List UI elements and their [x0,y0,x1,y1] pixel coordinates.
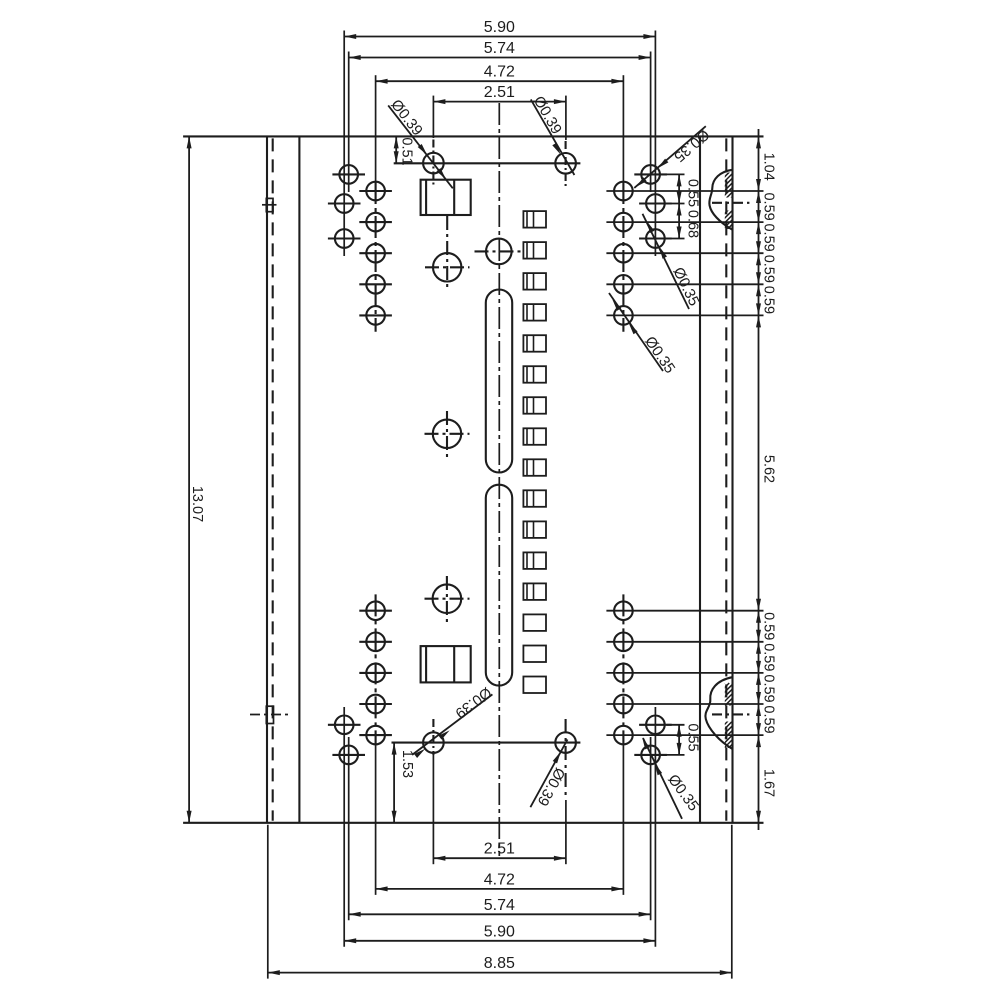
dimension 5.90 top [344,19,655,256]
right inner wall line [699,136,701,822]
dimension 5.74 top [349,40,651,192]
outer row extension lines to 0.55 dim (bottom) [662,725,685,755]
svg-text:5.90: 5.90 [484,923,515,940]
large hole B3 [425,411,470,457]
leader diameter 0.35 top-right hole [634,126,712,188]
lower left edge notch [250,706,288,723]
svg-text:Ø0.39: Ø0.39 [452,683,495,721]
contact pad column [523,211,546,693]
leader diameter 0.39 hole A1 [387,96,453,188]
large hole B4 [425,576,470,622]
dimension 0.55/0.68 top-right [677,174,701,238]
lower slot [486,485,512,686]
svg-text:Ø0.39: Ø0.39 [530,93,565,137]
lower broken-out section break line [705,677,732,749]
svg-text:0.59: 0.59 [761,192,777,220]
bottom-right inner holes column [614,594,633,745]
dimension 5.90 bottom [344,707,655,947]
svg-text:0.59: 0.59 [761,612,777,640]
svg-text:13.07: 13.07 [189,486,205,522]
chain label 1.04 [761,153,777,181]
part body outline - top edge with extension lines [183,135,763,137]
dimension 0.55 bottom-right [677,723,701,755]
hole A3 diameter 0.39 bottom-left [423,719,444,755]
top-right outer hole 3 (5.90 col) [639,229,672,248]
leader diameter 0.39 hole A2 [530,93,575,175]
row line through bottom 0.39 holes [392,742,581,744]
part body outline - bottom edge with extension lines [183,822,763,824]
vertical part centreline [498,103,500,856]
leader diameter 0.35 mid-right hole [643,214,703,309]
svg-text:1.04: 1.04 [761,153,777,181]
svg-text:4.72: 4.72 [484,64,515,81]
lower section hole axis [712,713,749,715]
dimension 5.74 bottom [349,737,651,920]
svg-text:0.68: 0.68 [685,210,701,238]
top-right outer hole 2 (5.90 col) [639,194,672,213]
top-left outer hole 2 (5.90 col) [328,194,361,213]
left inner wall line [298,136,300,822]
svg-text:0.55: 0.55 [685,723,701,751]
chain label 1.67 [761,769,777,797]
svg-text:4.72: 4.72 [484,871,515,888]
chain labels 0.59 bottom [761,612,777,734]
leader diameter 0.39 hole A4 [530,740,568,809]
bottom-left outer hole 2 (5.74 col) [332,746,365,765]
lower rectangular cutout [421,646,471,682]
bottom-left outer hole 1 (5.90 col) [328,716,361,735]
large hole B2 on centreline [475,239,525,265]
dimension 13.07 left [187,136,205,822]
upper section hatching [650,165,897,233]
upper section hole axis [712,202,749,204]
svg-text:0.59: 0.59 [761,255,777,283]
upper slot [486,290,512,473]
leader diameter 0.35 bottom-right hole [642,738,702,819]
svg-text:0.51: 0.51 [399,137,415,165]
svg-text:Ø0.35: Ø0.35 [641,333,678,376]
dimension 0.51 top [394,136,415,165]
svg-text:0.59: 0.59 [761,223,777,251]
svg-text:5.74: 5.74 [484,40,515,57]
svg-text:0.59: 0.59 [761,705,777,733]
row extension lines to right chain (top) [606,191,763,315]
bottom-right outer hole 1 (5.90 col) [639,716,672,735]
bottom-left inner holes column [359,594,392,745]
chain labels 0.59 top [761,192,777,314]
right chain dimension line [758,129,760,830]
upper left edge notch [262,198,277,211]
svg-text:5.90: 5.90 [484,19,515,36]
hole A4 diameter 0.39 bottom-right [555,719,576,800]
dimension 1.53 bottom-left [392,743,415,823]
right hidden edge (dashed) [725,138,727,820]
chain label 5.62 [761,455,777,483]
large hole B1 [425,216,470,289]
top-left inner holes column [359,182,392,332]
hole A2 diameter 0.39 top-right [555,141,576,187]
bottom-right outer hole 2 (5.74 col) [634,746,667,765]
svg-text:8.85: 8.85 [484,955,515,972]
top-left outer hole 3 (5.90 col) [328,229,361,248]
svg-text:Ø0.39: Ø0.39 [387,96,426,139]
right chain arrows and ticks [756,136,761,822]
row line through top 0.39 holes [394,162,581,164]
svg-text:1.67: 1.67 [761,769,777,797]
leader diameter 0.39 hole A3 [412,683,495,758]
dimension 2.51 top [433,84,566,140]
upper rectangular cutout [421,180,471,215]
svg-text:0.59: 0.59 [761,674,777,702]
dimension 2.51 bottom [433,752,566,864]
svg-text:0.59: 0.59 [761,286,777,314]
row extension lines to right chain (bottom) [606,611,763,735]
hole A1 diameter 0.39 top-left [423,140,444,187]
svg-text:5.62: 5.62 [761,455,777,483]
top-left outer hole 1 (5.74 col) [332,165,365,184]
left hidden edge (dashed) [272,138,274,820]
top-right inner holes column [614,182,633,332]
svg-text:0.55: 0.55 [685,179,701,207]
svg-text:Ø0.39: Ø0.39 [534,765,569,809]
outer row extension lines to 0.55/0.68 dim (top) [662,174,685,238]
svg-text:Ø0.35: Ø0.35 [669,265,702,309]
leader diameter 0.35 lower-right hole [609,293,678,377]
svg-text:0.59: 0.59 [761,643,777,671]
dimension 4.72 top [376,64,624,183]
top-right outer hole 1 (5.74 col) [634,165,667,184]
svg-text:5.74: 5.74 [484,897,515,914]
svg-text:2.51: 2.51 [484,84,515,101]
dimension 4.72 bottom [376,745,624,895]
dimension 8.85 bottom [268,825,732,979]
lower section hatching [604,683,853,753]
svg-text:Ø0.35: Ø0.35 [670,126,712,166]
upper broken-out section break line [709,170,732,230]
part body outline - left edge [266,136,268,822]
svg-text:2.51: 2.51 [484,841,515,858]
part body outline - right edge [731,136,733,822]
